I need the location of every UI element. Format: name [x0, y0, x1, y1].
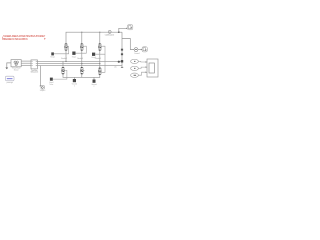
scope tap wire [39, 66, 41, 86]
svg-text:Source: Source [14, 68, 19, 71]
svg-text:Ground: Ground [91, 84, 96, 86]
junction dot on A [118, 61, 120, 63]
current measurement CM1 [108, 30, 111, 33]
step ST3 [92, 53, 95, 56]
mid breaker MB2 [80, 67, 84, 74]
port arrows [146, 61, 147, 73]
ground GB2 [73, 79, 76, 82]
breaker TB1 [65, 44, 69, 62]
bus to junction [111, 31, 122, 33]
junction dot TB1/phase A [65, 61, 66, 62]
breaker TB3 [98, 44, 102, 69]
wire to scope1 [119, 28, 127, 32]
top bus wire [66, 32, 108, 43]
load element L3 [121, 60, 123, 62]
wire common to ground GB2 [74, 77, 76, 79]
svg-text:Breaker1: Breaker1 [61, 58, 67, 60]
annotation handle mark [44, 38, 46, 40]
in port P3 [131, 73, 139, 77]
mid breaker MB3 [98, 68, 102, 75]
bus drop 3 [99, 32, 101, 43]
load element L1 [121, 49, 123, 51]
junction dot TB3/phase B [99, 63, 100, 64]
current measurement CM2 [134, 48, 138, 52]
junction dot TB2/phase B [81, 63, 82, 64]
in port P2 [131, 66, 139, 70]
step ST1 [51, 52, 54, 55]
svg-text:Breaker3: Breaker3 [95, 58, 101, 60]
svg-text:Ground: Ground [72, 83, 77, 85]
phase wire B [37, 63, 99, 65]
branch to CM2 [122, 39, 134, 50]
load element L2 [121, 53, 123, 55]
svg-text:2: 2 [94, 86, 95, 88]
svg-text:Scope3: Scope3 [40, 90, 46, 92]
port wires [138, 61, 146, 75]
svg-text:powergui: powergui [7, 82, 14, 84]
three-phase source U1 [11, 60, 21, 72]
svg-text:BREAKER CONFIGURATION: BREAKER CONFIGURATION [3, 37, 28, 41]
scope S4 [41, 86, 44, 90]
scope S2 [142, 47, 147, 52]
svg-text:Breaker2: Breaker2 [77, 58, 83, 60]
wires source to measurement [21, 61, 31, 65]
scope S1 [127, 25, 132, 30]
powergui block [6, 76, 15, 81]
vertical load line [121, 32, 123, 67]
mid breaker MB1 [62, 61, 66, 74]
scope S3 [147, 59, 158, 77]
step ST4 [50, 78, 53, 81]
step ST2 [72, 52, 75, 55]
in port P1 [131, 59, 139, 63]
breaker TB2 [80, 44, 84, 68]
load bottom tick [121, 66, 123, 68]
wire to scope2 [138, 49, 142, 51]
svg-text:Timer: Timer [49, 84, 53, 86]
ground GB3 [93, 80, 96, 83]
bottom common wire [63, 74, 100, 77]
annotation left tick [1, 37, 4, 40]
control wire to MB3 [102, 54, 105, 72]
phase wire C [37, 65, 122, 67]
V-I measurement U2 [31, 60, 39, 74]
bus drop 2 [81, 32, 83, 43]
bus junction dot 2 [81, 32, 82, 33]
wire common to ground GB3 [93, 77, 95, 79]
ground G1 [7, 63, 11, 68]
svg-text:abc: abc [114, 67, 117, 69]
bus junction dot 3 [99, 32, 100, 33]
wire MB2 to common [81, 74, 83, 77]
svg-text:1: 1 [74, 85, 75, 87]
phase wire A [37, 60, 122, 62]
